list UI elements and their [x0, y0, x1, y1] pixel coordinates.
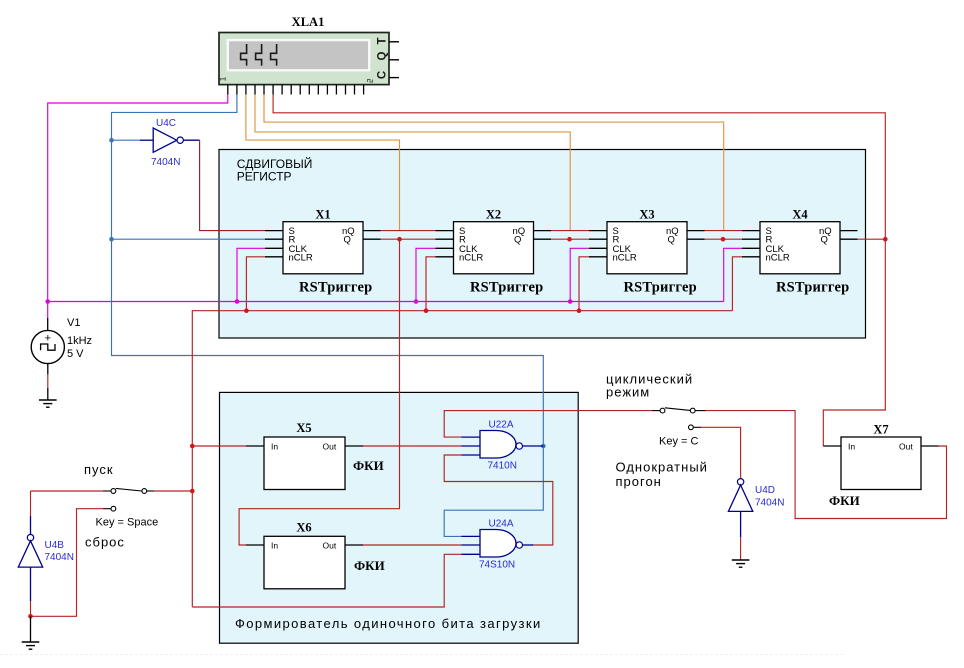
- node U4B out junction: [28, 614, 33, 619]
- svg-text:XLA1: XLA1: [292, 15, 325, 29]
- svg-text:Out: Out: [323, 541, 337, 551]
- svg-text:X3: X3: [639, 208, 654, 222]
- svg-text:5 V: 5 V: [67, 348, 84, 360]
- svg-text:Out: Out: [323, 442, 337, 452]
- wire red сброс branch: [31, 509, 104, 617]
- svg-text:X4: X4: [792, 208, 808, 222]
- svg-text:T: T: [377, 37, 389, 44]
- svg-text:ФКИ: ФКИ: [353, 458, 384, 473]
- svg-text:U22A: U22A: [489, 420, 514, 431]
- nand U22A: [462, 420, 544, 472]
- wire red X1 nQ to X2 S: [381, 230, 436, 232]
- wire red X3 nQ to X4 S: [705, 230, 743, 232]
- svg-text:C: C: [377, 71, 389, 79]
- inverter U4D: [728, 479, 784, 560]
- trigger X1: [265, 208, 381, 296]
- sheet border (faint dashed): [0, 654, 845, 656]
- wire red U4C out to X1 S: [200, 140, 265, 230]
- svg-text:nCLR: nCLR: [613, 253, 637, 264]
- wire blue: XLA pin2 / U22A output net: [112, 95, 544, 447]
- svg-text:Out: Out: [899, 442, 913, 452]
- svg-text:X2: X2: [486, 208, 501, 222]
- wire red X3 Q to X4 R: [705, 238, 743, 240]
- clock source V1: [31, 317, 92, 400]
- wire to ground: [30, 616, 32, 642]
- svg-text:74S10N: 74S10N: [479, 560, 515, 571]
- svg-text:режим: режим: [606, 385, 650, 400]
- svg-text:In: In: [271, 541, 278, 551]
- svg-text:7410N: 7410N: [488, 461, 517, 472]
- svg-text:X5: X5: [296, 421, 311, 435]
- svg-text:ФКИ: ФКИ: [354, 558, 385, 573]
- svg-text:Q: Q: [668, 235, 675, 246]
- svg-text:Q: Q: [377, 51, 389, 60]
- svg-text:прогон: прогон: [616, 474, 662, 489]
- svg-text:U4B: U4B: [45, 540, 65, 551]
- wire red bottom run to U24A input3: [192, 554, 461, 607]
- svg-text:1kHz: 1kHz: [67, 335, 92, 347]
- node пуск junctions: [190, 444, 195, 494]
- svg-text:7404N: 7404N: [45, 552, 74, 563]
- svg-text:X1: X1: [315, 208, 330, 222]
- svg-text:RSТриггер: RSТриггер: [776, 280, 849, 296]
- XLA1 right pins T Q C: [389, 42, 399, 78]
- wire red U22A input1 to cyclic switch: [444, 411, 652, 438]
- svg-text:Key = Space: Key = Space: [96, 517, 159, 529]
- trigger X2: [436, 208, 552, 296]
- wire red U22A input3 feedback from U24A out: [444, 455, 553, 545]
- svg-text:7404N: 7404N: [755, 498, 784, 509]
- node Q-row junctions: [397, 237, 887, 242]
- node blue junctions: [109, 138, 545, 448]
- inverter U4C: [140, 118, 200, 168]
- logic analyzer XLA1: [219, 15, 389, 85]
- trigger X3: [589, 208, 705, 296]
- svg-text:+: +: [45, 333, 51, 345]
- shift register region box: [219, 150, 866, 339]
- wire magenta V1 stub: [47, 302, 49, 319]
- wire orange XLA pin4 to X3 S: [255, 95, 570, 231]
- wire red cyclic switch to X7 Out: [706, 411, 947, 519]
- switch Key=Space: [31, 488, 193, 528]
- svg-text:X7: X7: [873, 423, 888, 437]
- wire red X4 Q to right bus: [858, 238, 886, 240]
- svg-text:U24A: U24A: [489, 519, 514, 530]
- XLA1 screen waveform glyphs: [241, 44, 277, 66]
- node nCLR bus junctions: [244, 308, 581, 313]
- ground U4D: [732, 560, 750, 567]
- svg-text:nCLR: nCLR: [289, 253, 313, 264]
- wire red nCLR bus: [192, 311, 732, 607]
- wire red X1 Q to X2 R: [381, 238, 436, 240]
- node clock bus junctions: [45, 299, 572, 304]
- svg-text:Key = C: Key = C: [659, 436, 698, 448]
- svg-text:V1: V1: [67, 317, 80, 329]
- svg-text:сброс: сброс: [85, 535, 125, 550]
- wire magenta clock bus horizontal: [48, 301, 724, 303]
- ground V1: [39, 400, 57, 407]
- wire red nCLR risers: [246, 257, 742, 311]
- ground U4B: [22, 642, 40, 649]
- svg-text:RSТриггер: RSТриггер: [299, 280, 372, 296]
- wire red X5 Out to U22A input2: [363, 445, 462, 447]
- svg-text:U4C: U4C: [156, 118, 176, 129]
- wire red Key=C throw to U4D: [701, 427, 741, 478]
- nand U24A: [462, 519, 534, 571]
- XLA1 bottom pins 1-16: [228, 85, 364, 95]
- wire red to X5 In: [192, 445, 246, 447]
- svg-text:In: In: [271, 442, 278, 452]
- load-bit former region box: [220, 392, 579, 643]
- svg-text:Q: Q: [821, 235, 828, 246]
- pulse shaper X7: [823, 423, 938, 509]
- wire red X6 Out to U24A input2: [363, 544, 462, 546]
- svg-text:РЕГИСТР: РЕГИСТР: [237, 170, 292, 184]
- svg-text:7404N: 7404N: [151, 157, 180, 168]
- svg-text:nCLR: nCLR: [459, 253, 483, 264]
- svg-text:RSТриггер: RSТриггер: [624, 280, 697, 296]
- switch Key=C: [652, 408, 706, 448]
- inverter U4B: [18, 491, 74, 616]
- wire blue to U24A input1: [444, 446, 543, 536]
- wire red X2 nQ to X3 S: [551, 230, 589, 232]
- wire blue branch to U4C input: [112, 139, 141, 141]
- svg-text:Однократный: Однократный: [616, 460, 708, 475]
- wire orange XLA pin3 to X2 S: [246, 95, 400, 231]
- wire blue branch to X1 R: [112, 238, 266, 240]
- svg-text:Формирователь одиночного бита: Формирователь одиночного бита загрузки: [235, 616, 542, 631]
- svg-text:1: 1: [219, 76, 228, 81]
- svg-text:X6: X6: [296, 521, 311, 535]
- svg-text:Q: Q: [514, 235, 521, 246]
- wire red X2 Q to X3 R: [551, 238, 589, 240]
- wire red X1 Q feedback to X6 In: [239, 239, 399, 545]
- svg-text:ФКИ: ФКИ: [829, 493, 860, 508]
- svg-text:nCLR: nCLR: [766, 253, 790, 264]
- pulse shaper X5: [246, 421, 384, 490]
- pulse shaper X6: [246, 521, 385, 589]
- svg-text:RSТриггер: RSТриггер: [470, 280, 543, 296]
- XLA1 pin strip labels T Q C: [377, 37, 389, 79]
- svg-text:In: In: [848, 442, 855, 452]
- wire magenta: XLA pin1 to clock bus: [48, 95, 228, 302]
- wire red XLA pin6 to X4 Q and X7 In: [273, 95, 885, 447]
- XLA1 tiny trigger icon: [368, 80, 373, 83]
- svg-text:U4D: U4D: [755, 485, 775, 496]
- wire orange XLA pin5 to X4 S: [264, 95, 724, 231]
- trigger X4: [742, 208, 858, 296]
- svg-text:Q: Q: [344, 235, 351, 246]
- svg-text:пуск: пуск: [84, 462, 114, 477]
- wire magenta CLK risers: [237, 248, 742, 301]
